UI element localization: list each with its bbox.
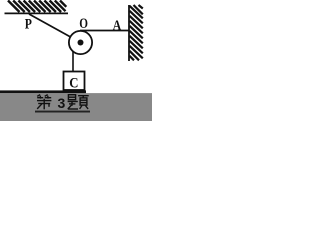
svg-text:O: O (79, 14, 88, 31)
svg-text:P: P (25, 15, 32, 32)
svg-text:C: C (69, 76, 78, 92)
svg-text:3: 3 (58, 95, 66, 111)
